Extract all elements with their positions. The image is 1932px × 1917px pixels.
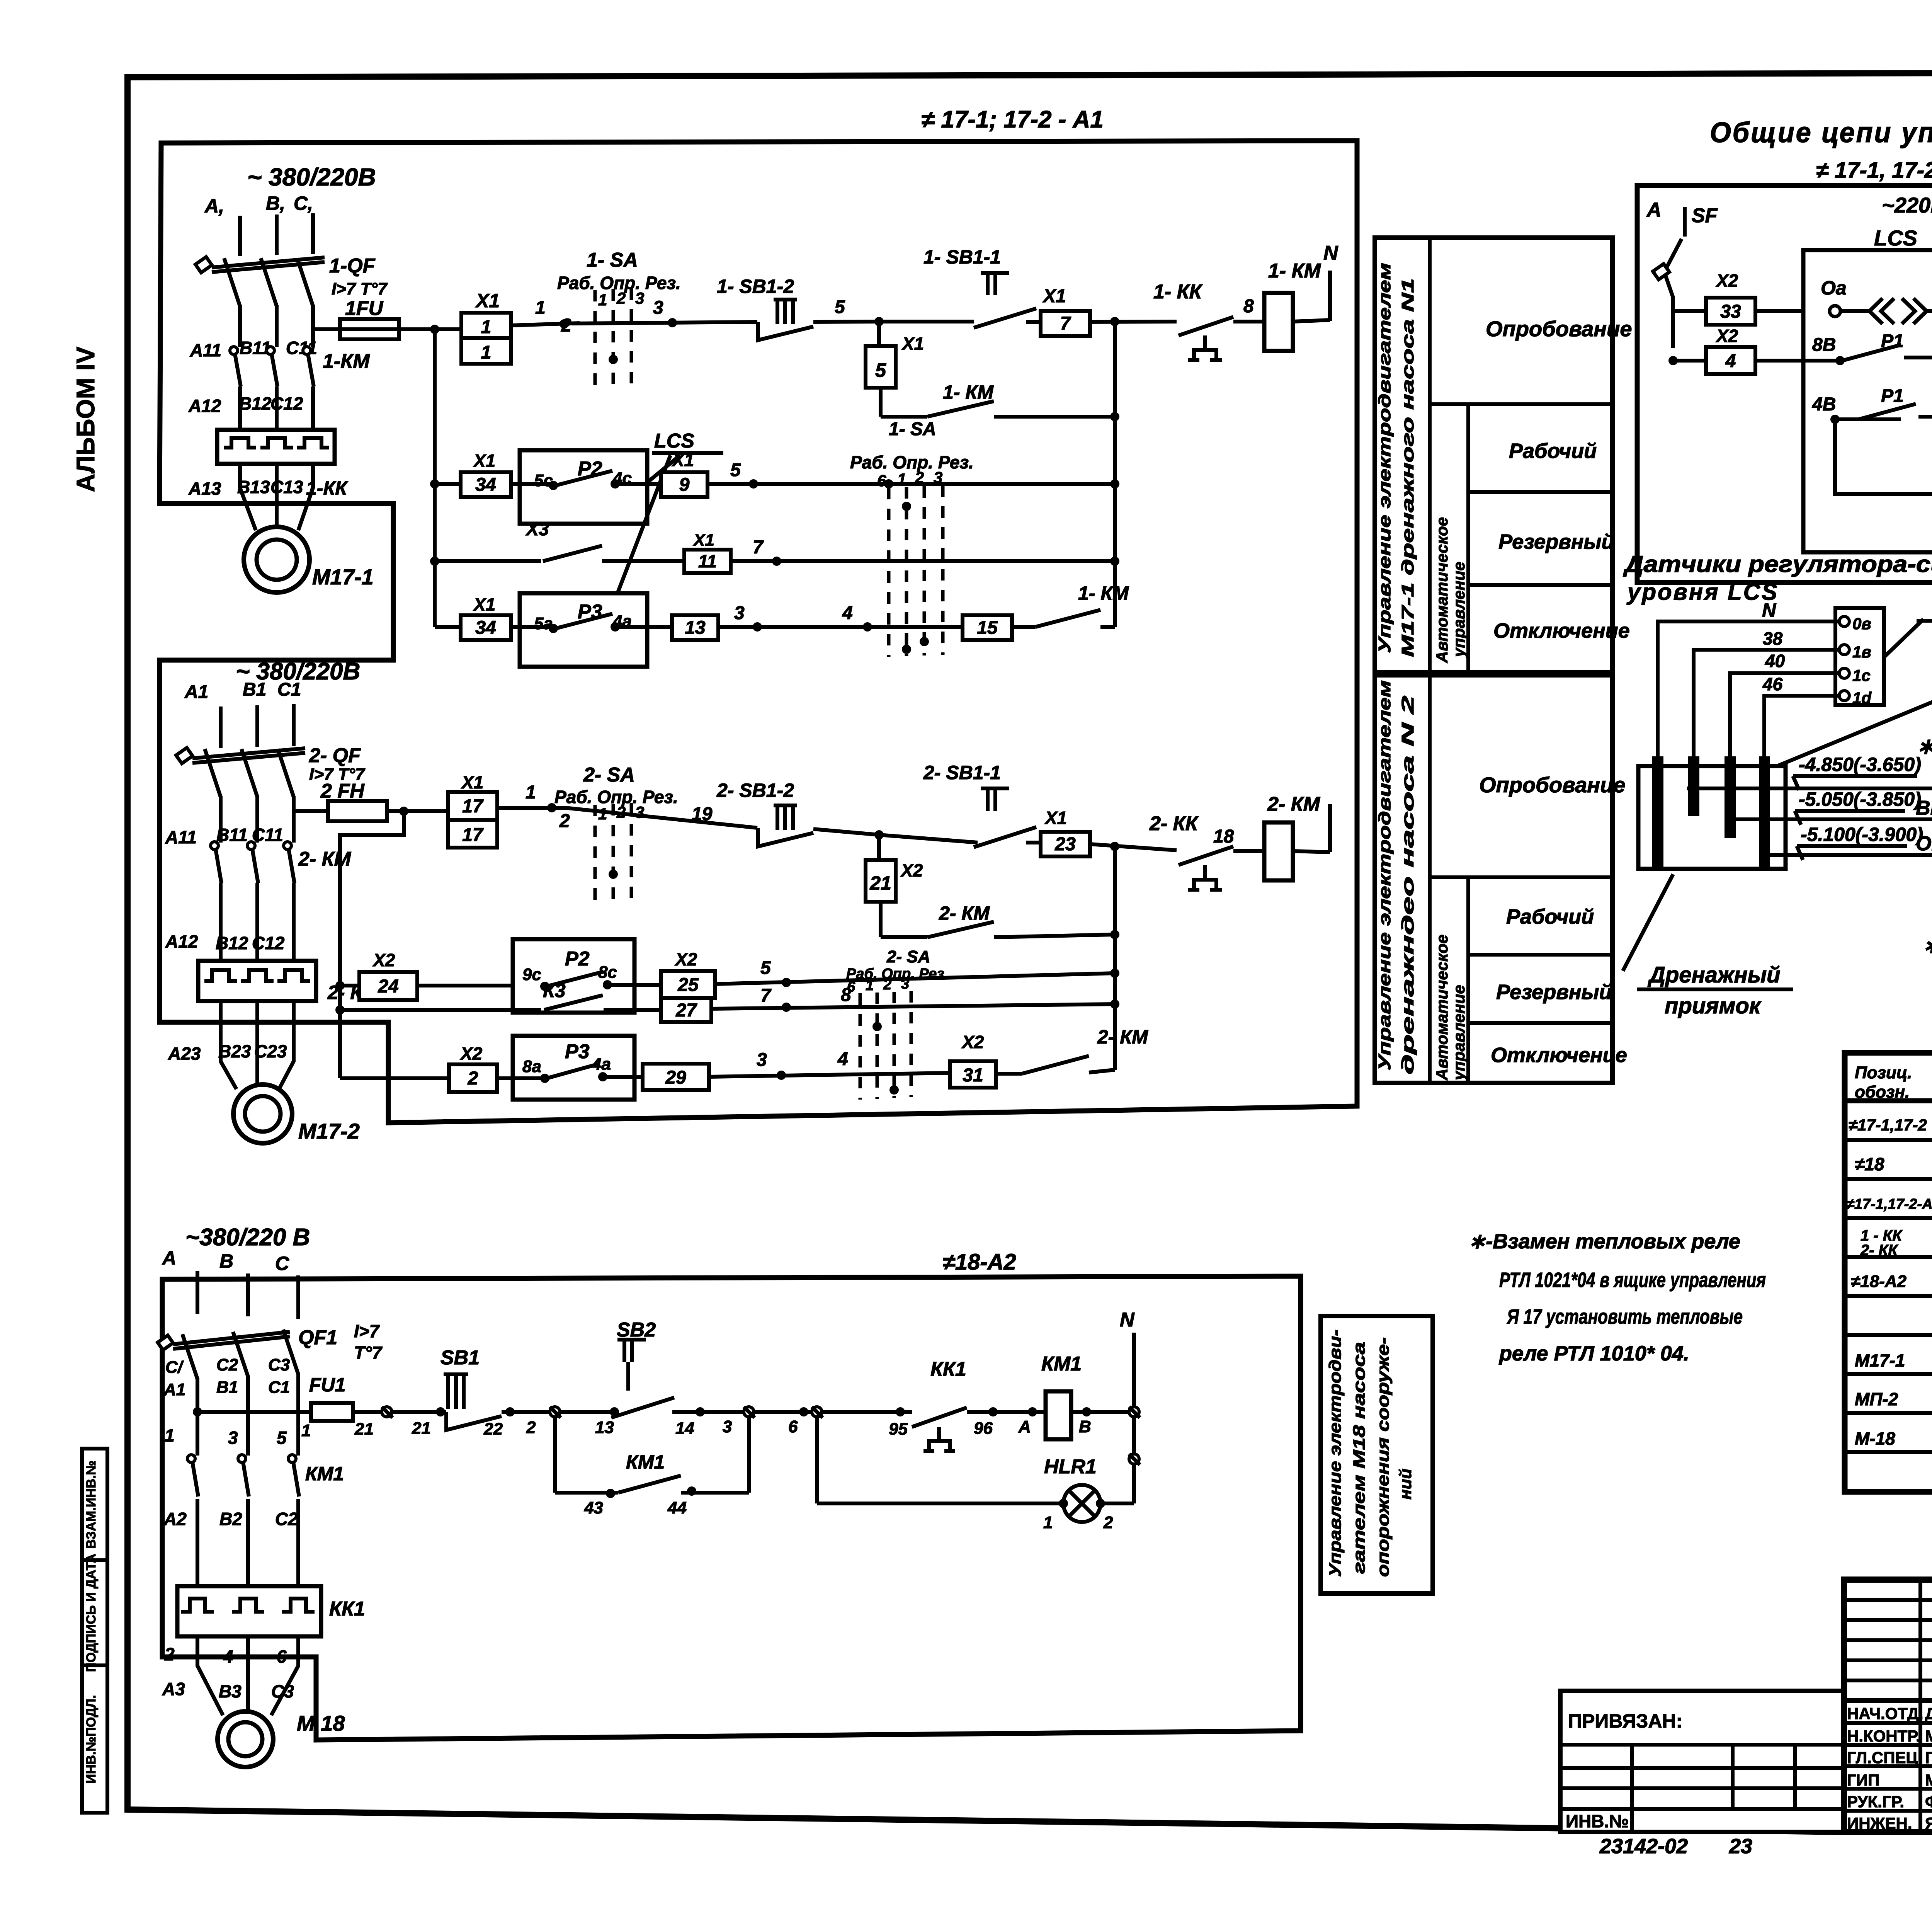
labels А2 В2 С2 — [163, 1509, 298, 1529]
svg-text:А1: А1 — [163, 1380, 185, 1399]
relay contact P2 circuit 2 — [417, 939, 661, 1013]
svg-text:FU1: FU1 — [309, 1374, 345, 1396]
parts row 1 — [1849, 1114, 1932, 1136]
wire poles to main row М18 — [193, 1374, 298, 1456]
svg-text:А12: А12 — [188, 396, 221, 416]
svg-text:НАЧ.ОТД.: НАЧ.ОТД. — [1847, 1704, 1923, 1723]
wire breaker to contactor — [240, 305, 313, 347]
pushbutton 2-SB1-1 — [879, 762, 1041, 847]
svg-text:5: 5 — [730, 460, 741, 480]
wire phase stubs circuit 2 — [221, 704, 294, 748]
svg-text:К3: К3 — [543, 980, 566, 1001]
svg-text:23: 23 — [1729, 1835, 1752, 1858]
circuit breaker 1-QF — [196, 255, 388, 306]
svg-text:ИНВ.№ПОДЛ.: ИНВ.№ПОДЛ. — [84, 1695, 99, 1784]
svg-text:≠17-1,17-2-А1: ≠17-1,17-2-А1 — [1846, 1196, 1932, 1212]
circuit breaker QF1 — [158, 1321, 383, 1379]
parts row 9 — [1855, 1428, 1932, 1450]
pushbutton 1-SB1-1 — [923, 246, 1041, 328]
svg-text:В: В — [1079, 1417, 1091, 1436]
svg-text:≠17-1,17-2: ≠17-1,17-2 — [1849, 1116, 1927, 1134]
svg-text:В2: В2 — [219, 1509, 242, 1529]
svg-text:27: 27 — [675, 1000, 697, 1021]
svg-text:В12: В12 — [216, 933, 248, 953]
relay contact P3 — [511, 593, 672, 667]
svg-text:4: 4 — [842, 603, 853, 623]
wire left bus circuit 1 — [430, 329, 439, 627]
terminal X1 17/17 — [448, 772, 497, 848]
svg-text:1- КК: 1- КК — [1153, 281, 1203, 303]
svg-text:М17-1 дренажного насоса N1: М17-1 дренажного насоса N1 — [1398, 278, 1417, 657]
svg-text:21: 21 — [412, 1419, 431, 1438]
svg-text:Позиц.: Позиц. — [1855, 1063, 1912, 1082]
svg-text:приямок: приямок — [1665, 993, 1762, 1018]
svg-text:N: N — [1323, 242, 1338, 264]
thermal relay 2-КК — [198, 961, 375, 1003]
footer annotations — [1599, 1835, 1932, 1868]
svg-text:Рабочий: Рабочий — [1506, 905, 1594, 928]
svg-text:Р3: Р3 — [565, 1040, 590, 1063]
switch 1-SA column 1 — [557, 249, 681, 386]
terminal X1 7 — [1041, 286, 1177, 336]
svg-text:С12: С12 — [252, 933, 285, 953]
svg-text:4: 4 — [1725, 351, 1736, 371]
svg-text:1: 1 — [526, 782, 536, 803]
svg-text:опорожнения сооруже-: опорожнения сооруже- — [1374, 1337, 1393, 1577]
node N circuit 2 — [1328, 804, 1332, 852]
terminal 29 — [643, 1049, 950, 1090]
svg-text:Резервный: Резервный — [1498, 530, 1614, 553]
svg-text:2- SB1-2: 2- SB1-2 — [716, 780, 794, 801]
svg-text:С,: С, — [294, 192, 313, 214]
svg-text:~ 380/220В: ~ 380/220В — [247, 163, 376, 191]
svg-text:Х2: Х2 — [900, 860, 923, 880]
svg-text:1: 1 — [1043, 1513, 1053, 1532]
svg-text:ПРИВЯЗАН:: ПРИВЯЗАН: — [1568, 1710, 1682, 1732]
svg-text:96: 96 — [974, 1419, 993, 1438]
relay contact P1 row 4В 5В — [1812, 386, 1932, 424]
svg-text:дренажндео насоса N 2: дренажндео насоса N 2 — [1398, 695, 1417, 1074]
node N circuit 1 — [1323, 242, 1338, 321]
contactor coil 1-КМ — [1243, 260, 1330, 351]
svg-text:А3: А3 — [162, 1679, 185, 1699]
svg-text:МП-2: МП-2 — [1855, 1389, 1898, 1409]
svg-text:2: 2 — [559, 811, 570, 831]
motor М17-1 — [244, 527, 374, 592]
switch 1-SA column 2 — [850, 419, 974, 657]
svg-text:2- КК: 2- КК — [1860, 1242, 1898, 1259]
svg-text:Х2: Х2 — [1715, 326, 1738, 346]
svg-text:С: С — [275, 1253, 289, 1274]
svg-text:~220В: ~220В — [1882, 193, 1932, 217]
function table pump 2 — [1375, 675, 1627, 1083]
pushbutton SB1 — [440, 1347, 553, 1439]
svg-text:Р1: Р1 — [1881, 386, 1904, 406]
svg-text:2: 2 — [1103, 1513, 1113, 1532]
svg-text:А: А — [1018, 1417, 1031, 1436]
svg-text:ГОЛЬЦМАН: ГОЛЬЦМАН — [1925, 1748, 1932, 1767]
wire left bus circuit 2 — [335, 811, 404, 1078]
svg-text:Х1: Х1 — [461, 772, 483, 792]
svg-text:-5.050(-3.850): -5.050(-3.850) — [1799, 788, 1921, 810]
pushbutton 2-SB1-2 — [716, 780, 879, 846]
svg-text:Автоматическое: Автоматическое — [1433, 935, 1451, 1081]
labels 2 4 6 — [164, 1644, 287, 1667]
svg-text:ний: ний — [1396, 1469, 1415, 1500]
svg-text:2- КК: 2- КК — [1149, 812, 1199, 835]
svg-text:М 18: М 18 — [297, 1711, 345, 1735]
parts row 3 — [1846, 1192, 1932, 1214]
attachment block Привязан — [1560, 1691, 1845, 1832]
svg-text:≠ 17-1; 17-2 - А1: ≠ 17-1; 17-2 - А1 — [921, 106, 1104, 133]
svg-text:23: 23 — [1054, 834, 1076, 855]
signal lamp HLR1 — [817, 1417, 1134, 1532]
wire main row circuit 2 — [497, 782, 757, 828]
svg-text:7: 7 — [760, 986, 772, 1006]
svg-text:24: 24 — [378, 976, 398, 997]
fuse FU1 — [197, 1374, 382, 1440]
thermal relay КК1 — [177, 1586, 365, 1636]
svg-text:Отключение: Отключение — [1491, 1044, 1627, 1067]
svg-text:2: 2 — [468, 1068, 478, 1089]
svg-text:3: 3 — [734, 603, 745, 623]
svg-text:≠18-А2: ≠18-А2 — [1851, 1272, 1907, 1291]
title Общие цепи управления — [1710, 116, 1932, 183]
title block main — [1844, 1580, 1932, 1832]
labels А23 В23 С23 — [168, 1041, 287, 1064]
svg-text:43: 43 — [584, 1498, 603, 1517]
wire row P2 to bus — [707, 460, 1115, 489]
svg-text:2- SB1-1: 2- SB1-1 — [923, 762, 1001, 783]
wire right bus circuit 1 — [1110, 322, 1119, 627]
switch 2-SA column 1 — [554, 764, 678, 901]
svg-text:≠18: ≠18 — [1855, 1154, 1884, 1174]
svg-text:1FU: 1FU — [345, 297, 384, 320]
svg-text:РУК.ГР.: РУК.ГР. — [1847, 1793, 1904, 1811]
svg-text:21: 21 — [354, 1420, 374, 1439]
svg-text:С11: С11 — [252, 825, 283, 845]
terminal X1 5 — [866, 322, 924, 388]
terminal X2 27 — [661, 985, 1115, 1022]
svg-text:2- КМ: 2- КМ — [298, 848, 352, 870]
svg-text:А11: А11 — [190, 340, 221, 360]
svg-text:~380/220 В: ~380/220 В — [185, 1224, 310, 1251]
svg-text:В: В — [219, 1250, 233, 1272]
svg-text:управление: управление — [1450, 985, 1468, 1081]
svg-text:А,: А, — [204, 195, 224, 217]
svg-text:Х3: Х3 — [525, 519, 549, 540]
auxiliary contact КМ1 — [555, 1417, 749, 1517]
svg-text:Раб. Опр. Рез.: Раб. Опр. Рез. — [846, 966, 948, 982]
svg-text:2: 2 — [883, 977, 891, 993]
control cabinet box ≠17-1;17-2-А1 — [160, 106, 1357, 1123]
svg-text:1- КМ: 1- КМ — [1078, 582, 1129, 604]
svg-text:Х1: Х1 — [1042, 286, 1066, 306]
circuit breaker 2-QF — [176, 744, 366, 797]
labels С1 С2 С3 А1 В1 С1 — [163, 1355, 290, 1399]
svg-text:А11: А11 — [165, 827, 197, 847]
svg-text:Х2: Х2 — [961, 1032, 984, 1052]
svg-text:Х2: Х2 — [459, 1044, 483, 1064]
svg-text:Х1: Х1 — [475, 290, 500, 312]
svg-text:-4.850(-3.650): -4.850(-3.650) — [1799, 754, 1921, 775]
svg-text:Раб. Опр. Рез.: Раб. Опр. Рез. — [554, 787, 678, 807]
svg-text:33: 33 — [1720, 301, 1741, 322]
svg-text:2- КМ: 2- КМ — [1267, 793, 1321, 815]
svg-text:4В: 4В — [1812, 394, 1836, 415]
svg-text:КМ1: КМ1 — [626, 1451, 665, 1473]
svg-text:2: 2 — [561, 315, 571, 336]
svg-text:17: 17 — [462, 796, 484, 817]
contactor contacts 1-КМ — [190, 338, 370, 430]
svg-text:3: 3 — [723, 1417, 732, 1436]
svg-text:Т°7: Т°7 — [354, 1343, 383, 1363]
svg-text:2: 2 — [915, 468, 924, 487]
svg-text:25: 25 — [677, 975, 699, 995]
svg-text:1-КМ: 1-КМ — [323, 350, 370, 373]
svg-text:6: 6 — [847, 979, 855, 995]
svg-text:3: 3 — [228, 1428, 238, 1448]
svg-text:КК1: КК1 — [329, 1598, 365, 1620]
terminal X1 34 row P2 — [435, 451, 511, 497]
svg-text:HLR1: HLR1 — [1044, 1456, 1097, 1478]
terminal X2 21 — [866, 830, 923, 902]
svg-text:Отключение насоса: Отключение насоса — [1916, 833, 1932, 855]
net ~380/220V supply circuit 1 — [204, 163, 376, 217]
pushbutton 1-SB1-2 — [717, 276, 879, 340]
svg-text:SB1: SB1 — [440, 1347, 480, 1369]
svg-text:1- SA: 1- SA — [889, 419, 936, 439]
svg-text:I>7 T°7: I>7 T°7 — [332, 279, 388, 298]
connector pass ø and wire to SB1 — [382, 1407, 446, 1438]
svg-text:19: 19 — [692, 804, 713, 824]
svg-text:С12: С12 — [270, 393, 303, 414]
terminal X1 9 — [661, 450, 707, 497]
parts list table — [1845, 1053, 1932, 1492]
motor М18 — [218, 1711, 345, 1767]
svg-text:0в: 0в — [1852, 615, 1871, 633]
svg-text:SF: SF — [1692, 204, 1718, 227]
wire thermal relay to motor — [240, 464, 313, 530]
svg-text:Н.КОНТР.: Н.КОНТР. — [1847, 1727, 1920, 1745]
relay contact 2-КМ row P3 — [996, 1026, 1148, 1074]
note replace thermal relays — [1468, 1230, 1766, 1365]
svg-text:В23: В23 — [218, 1041, 251, 1061]
parts row 8 — [1855, 1389, 1932, 1411]
svg-text:1: 1 — [535, 298, 546, 318]
terminal X1 1/1 — [461, 290, 511, 364]
terminal X2 33 — [1673, 271, 1832, 325]
svg-text:Х1: Х1 — [473, 594, 495, 615]
net ~380/220V supply М18 — [162, 1224, 310, 1319]
svg-text:5: 5 — [277, 1428, 287, 1448]
svg-text:С11: С11 — [286, 338, 317, 358]
auxiliary contact 2-КМ self hold — [881, 902, 1115, 937]
svg-text:∗: ∗ — [1917, 734, 1932, 758]
svg-text:Резервный: Резервный — [1496, 981, 1612, 1004]
svg-text:ЯНЧЕНКО: ЯНЧЕНКО — [1925, 1814, 1932, 1832]
svg-text:2: 2 — [616, 289, 626, 307]
function label box М18 — [1321, 1316, 1433, 1594]
svg-text:18: 18 — [1213, 826, 1234, 847]
terminal X1 13 — [672, 603, 963, 640]
terminal X1 34 row P3 — [435, 594, 511, 640]
node Oa — [1821, 277, 1847, 317]
svg-text:1: 1 — [598, 291, 607, 309]
relay contact Х3 row — [435, 519, 684, 561]
contactor coil КМ1 main — [1041, 1353, 1129, 1439]
svg-text:2- QF: 2- QF — [309, 744, 361, 767]
wire X1 to switch, node 1 — [511, 298, 580, 329]
svg-text:5: 5 — [875, 359, 886, 381]
svg-text:N: N — [1762, 599, 1776, 621]
svg-text:8В: 8В — [1812, 335, 1836, 355]
terminal X1 15 — [963, 615, 1012, 640]
svg-text:I>7: I>7 — [354, 1321, 380, 1341]
switch 2-SA column 2 — [846, 947, 948, 1100]
svg-text:17: 17 — [462, 825, 484, 845]
svg-text:3: 3 — [653, 298, 663, 318]
svg-text:С3: С3 — [268, 1355, 290, 1374]
labels А13 В13 С13 — [188, 477, 303, 499]
svg-text:АЛЬБОМ IV: АЛЬБОМ IV — [71, 347, 100, 492]
inner box LCS — [1803, 250, 1932, 552]
wire sensor leads — [1658, 621, 1839, 758]
svg-text:КК1: КК1 — [930, 1358, 966, 1381]
label LCS with leader lines — [617, 430, 723, 593]
svg-text:Управление электродви-: Управление электродви- — [1326, 1330, 1345, 1577]
svg-text:Я 17 установить тепловые: Я 17 установить тепловые — [1506, 1305, 1743, 1328]
svg-text:реле РТЛ 1010* 04.: реле РТЛ 1010* 04. — [1498, 1342, 1689, 1365]
svg-text:44: 44 — [667, 1498, 687, 1517]
svg-text:2- КМ: 2- КМ — [1097, 1026, 1148, 1048]
svg-text:уровня LCS: уровня LCS — [1626, 579, 1779, 605]
svg-text:1-QF: 1-QF — [329, 255, 376, 277]
svg-text:А12: А12 — [165, 931, 198, 952]
svg-text:1: 1 — [866, 977, 874, 994]
svg-text:1- КМ: 1- КМ — [1268, 260, 1321, 282]
svg-text:А1: А1 — [184, 682, 208, 702]
svg-text:ГЛ.СПЕЦ.: ГЛ.СПЕЦ. — [1847, 1748, 1922, 1767]
svg-text:Управление электродвигателем: Управление электродвигателем — [1375, 263, 1394, 653]
svg-text:-5.100(-3.900): -5.100(-3.900) — [1801, 824, 1923, 845]
svg-text:1- SA: 1- SA — [587, 249, 638, 271]
svg-text:1: 1 — [481, 342, 492, 363]
level mark -5.100 — [1764, 824, 1932, 860]
parts row 7 — [1855, 1350, 1932, 1372]
svg-text:1: 1 — [165, 1425, 175, 1445]
svg-text:Управление электродвигателем: Управление электродвигателем — [1375, 680, 1394, 1071]
svg-text:LCS: LCS — [654, 430, 694, 452]
svg-text:С1: С1 — [268, 1378, 290, 1397]
terminal X2 25 — [661, 949, 1115, 998]
svg-text:11: 11 — [698, 551, 717, 571]
svg-text:1- SB1-1: 1- SB1-1 — [923, 246, 1001, 268]
node N М18 — [1120, 1309, 1140, 1503]
terminal X1 11 — [684, 531, 1115, 573]
svg-text:Включение насоса: Включение насоса — [1916, 797, 1932, 819]
svg-text:31: 31 — [963, 1065, 983, 1086]
svg-text:1- КМ: 1- КМ — [943, 381, 994, 403]
svg-text:В1: В1 — [216, 1378, 238, 1397]
title block role names — [1847, 1704, 1932, 1832]
svg-text:А2: А2 — [163, 1509, 187, 1529]
svg-text:С2: С2 — [216, 1355, 238, 1374]
svg-text:В1: В1 — [243, 679, 266, 700]
svg-text:46: 46 — [1762, 674, 1783, 694]
svg-text:8а: 8а — [522, 1057, 541, 1076]
contactor coil 2-КМ — [1213, 793, 1330, 880]
svg-text:С/: С/ — [165, 1358, 184, 1377]
svg-text:34: 34 — [475, 618, 496, 638]
parts row 5 — [1851, 1270, 1932, 1292]
wire fuse to X1 with junction — [399, 325, 461, 334]
svg-text:А: А — [1646, 199, 1662, 221]
svg-text:Х1: Х1 — [692, 531, 714, 550]
parts row 2 — [1855, 1154, 1932, 1175]
svg-text:ВЗАМ.ИНВ.№: ВЗАМ.ИНВ.№ — [84, 1461, 99, 1549]
svg-text:А13: А13 — [188, 478, 221, 499]
labels А12 В12 С12 circuit 2 — [165, 931, 285, 953]
svg-text:В,: В, — [266, 192, 285, 214]
svg-text:обозн.: обозн. — [1855, 1083, 1910, 1102]
svg-text:34: 34 — [475, 475, 496, 495]
svg-text:LCS: LCS — [1874, 226, 1917, 250]
terminal X2 24 row P2 — [340, 950, 417, 1000]
svg-text:22: 22 — [483, 1420, 503, 1439]
svg-text:29: 29 — [665, 1067, 686, 1088]
relay contact 1-КМ row P3 — [1012, 582, 1129, 627]
svg-text:Опробование: Опробование — [1479, 773, 1625, 797]
svg-text:1: 1 — [897, 470, 906, 488]
wire main row circuit 1 — [572, 298, 757, 327]
svg-text:≠18-А2: ≠18-А2 — [943, 1250, 1016, 1275]
terminal X2 2 row P3 — [340, 1044, 497, 1092]
terminal X2 4 — [1668, 326, 1777, 374]
svg-text:7: 7 — [753, 537, 764, 558]
svg-text:1- SB1-2: 1- SB1-2 — [717, 276, 794, 297]
relay contact К3 circuit 2 — [340, 980, 661, 1010]
margin stamp column — [82, 1449, 107, 1813]
contactor contacts 2-КМ — [165, 825, 352, 961]
terminal X2 31 — [950, 1032, 996, 1088]
svg-text:Датчики регулятора-сигнализато: Датчики регулятора-сигнализатора — [1622, 551, 1932, 577]
svg-text:М17-1: М17-1 — [312, 565, 374, 589]
fuse 1FU — [313, 297, 399, 339]
svg-text:Автоматическое: Автоматическое — [1433, 517, 1451, 663]
level mark -5.050 — [1731, 788, 1932, 825]
svg-text:38: 38 — [1763, 628, 1783, 649]
function table pump 1 — [1375, 238, 1632, 672]
svg-text:5: 5 — [835, 297, 845, 317]
svg-text:Х1: Х1 — [671, 450, 694, 470]
svg-text:6: 6 — [877, 472, 886, 490]
svg-text:13: 13 — [685, 618, 706, 638]
svg-text:2: 2 — [164, 1644, 175, 1664]
svg-text:ПОДПИСЬ И ДАТА: ПОДПИСЬ И ДАТА — [84, 1554, 99, 1672]
auxiliary contact 1-КМ self hold — [881, 381, 1115, 417]
svg-text:МОСЕЕНКО: МОСЕЕНКО — [1925, 1771, 1932, 1789]
svg-text:14: 14 — [675, 1419, 694, 1438]
svg-text:1: 1 — [301, 1421, 311, 1440]
labels А12 В12 С12 — [188, 393, 303, 416]
svg-text:Х1: Х1 — [901, 334, 924, 354]
svg-text:Опробование: Опробование — [1486, 317, 1632, 341]
svg-text:3: 3 — [901, 976, 909, 992]
svg-text:Х2: Х2 — [1715, 271, 1738, 291]
svg-text:2- SA: 2- SA — [583, 764, 635, 786]
svg-text:В3: В3 — [219, 1681, 241, 1701]
